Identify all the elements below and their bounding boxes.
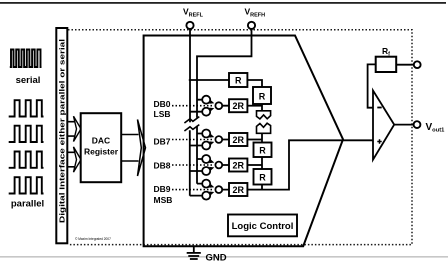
wire VREFL rail upper xyxy=(189,29,191,122)
resistor Rf xyxy=(376,57,397,72)
wire op-amp output xyxy=(394,124,413,126)
wire VREFH rail lower xyxy=(196,126,198,184)
svg-text:R: R xyxy=(259,145,266,155)
resistor 2R bit DB7 xyxy=(229,133,247,146)
parallel waveform 2 xyxy=(9,126,44,142)
resistor 2R bit DB8 xyxy=(229,159,247,172)
bus arrow serial into DAC register xyxy=(67,122,74,136)
op-amp U2 xyxy=(373,91,394,160)
svg-text:DB9: DB9 xyxy=(154,184,171,194)
terminal VREFL xyxy=(186,22,193,29)
svg-text:2R: 2R xyxy=(232,185,244,195)
svg-text:MSB: MSB xyxy=(154,195,173,205)
svg-text:serial: serial xyxy=(16,75,41,86)
svg-text:DB8: DB8 xyxy=(154,160,171,170)
wire chain R3 to node DB9 xyxy=(261,185,263,190)
svg-text:2R: 2R xyxy=(232,101,244,111)
resistor 2R bit DB9 xyxy=(229,183,247,196)
node DB7 wire xyxy=(247,139,262,141)
terminal Vout1 xyxy=(414,121,421,128)
bus arrow parallel into DAC register xyxy=(67,152,74,167)
DAC register U1 xyxy=(81,113,122,182)
resistor R top xyxy=(229,73,247,87)
rail break zigzag lower xyxy=(184,125,199,131)
op-amp plus sign xyxy=(377,139,381,143)
node DB8 wire xyxy=(247,164,262,166)
resistor chain R2 xyxy=(254,143,272,158)
frame bottom xyxy=(0,256,448,257)
wire VREFL rail lower xyxy=(189,130,191,195)
svg-text:DB0: DB0 xyxy=(154,99,171,109)
svg-text:2R: 2R xyxy=(232,161,244,171)
terminal VREFH xyxy=(248,22,255,29)
parallel waveform 3 xyxy=(9,152,44,168)
svg-text:parallel: parallel xyxy=(11,199,44,210)
svg-text:R: R xyxy=(259,172,266,182)
dotted package border xyxy=(68,30,412,245)
control line DB7 dotted xyxy=(172,139,214,141)
svg-text:© Maxim Integrated 2007: © Maxim Integrated 2007 xyxy=(75,237,111,241)
control line DB9 dotted xyxy=(172,189,214,191)
wire R top to ladder chain xyxy=(247,80,262,87)
logic control block xyxy=(228,215,297,237)
DAC core pentagon outline xyxy=(144,36,343,247)
wire chain R2 to node DB8 xyxy=(261,157,263,169)
svg-text:R: R xyxy=(235,76,242,86)
resistor chain R1 xyxy=(253,87,271,104)
svg-text:LSB: LSB xyxy=(154,109,171,119)
node DB0 wire xyxy=(247,105,262,107)
rail break zigzag upper xyxy=(184,117,199,123)
wire chain R1 to node DB0 xyxy=(261,104,263,111)
svg-text:DAC: DAC xyxy=(92,136,110,146)
switch SPDT DB8 xyxy=(190,155,229,175)
wire ladder output to op-amp xyxy=(262,140,373,189)
wire inverting input to feedback resistor xyxy=(368,64,376,107)
svg-text:R: R xyxy=(259,92,266,102)
wire VREFH drop and jog xyxy=(197,29,252,118)
frame top xyxy=(0,2,446,4)
parallel waveform 4 xyxy=(9,177,44,193)
switch SPDT DB0 xyxy=(190,96,229,116)
resistor 2R bit DB0 xyxy=(229,99,247,112)
switch SPDT DB9 xyxy=(190,180,229,200)
svg-text:Logic Control: Logic Control xyxy=(232,221,294,232)
svg-text:Register: Register xyxy=(84,147,119,157)
parallel waveform 1 xyxy=(9,100,44,116)
ladder chain break upper piece xyxy=(257,111,271,119)
ladder chain break lower piece xyxy=(257,123,271,133)
resistor chain R3 xyxy=(254,169,272,185)
control line DB0 dotted xyxy=(172,105,214,107)
node DB9 wire xyxy=(247,189,262,191)
svg-text:DB7: DB7 xyxy=(154,136,171,146)
terminal Rf pin xyxy=(414,61,421,68)
wire Rf to terminal xyxy=(396,64,414,66)
wire R top left to rail xyxy=(189,79,229,81)
ground xyxy=(187,247,201,259)
bus arrow DAC register to ladder switches xyxy=(121,135,138,162)
digital interface box xyxy=(56,28,67,243)
op-amp minus sign xyxy=(377,107,381,109)
svg-text:2R: 2R xyxy=(232,135,244,145)
serial waveform xyxy=(10,50,42,68)
switch SPDT DB7 xyxy=(190,130,229,150)
svg-text:GND: GND xyxy=(206,253,227,263)
control line DB8 dotted xyxy=(172,164,214,166)
svg-text:Digital Interface either paral: Digital Interface either parallel or ser… xyxy=(58,39,67,223)
wire chain break to node DB7 xyxy=(261,133,263,142)
